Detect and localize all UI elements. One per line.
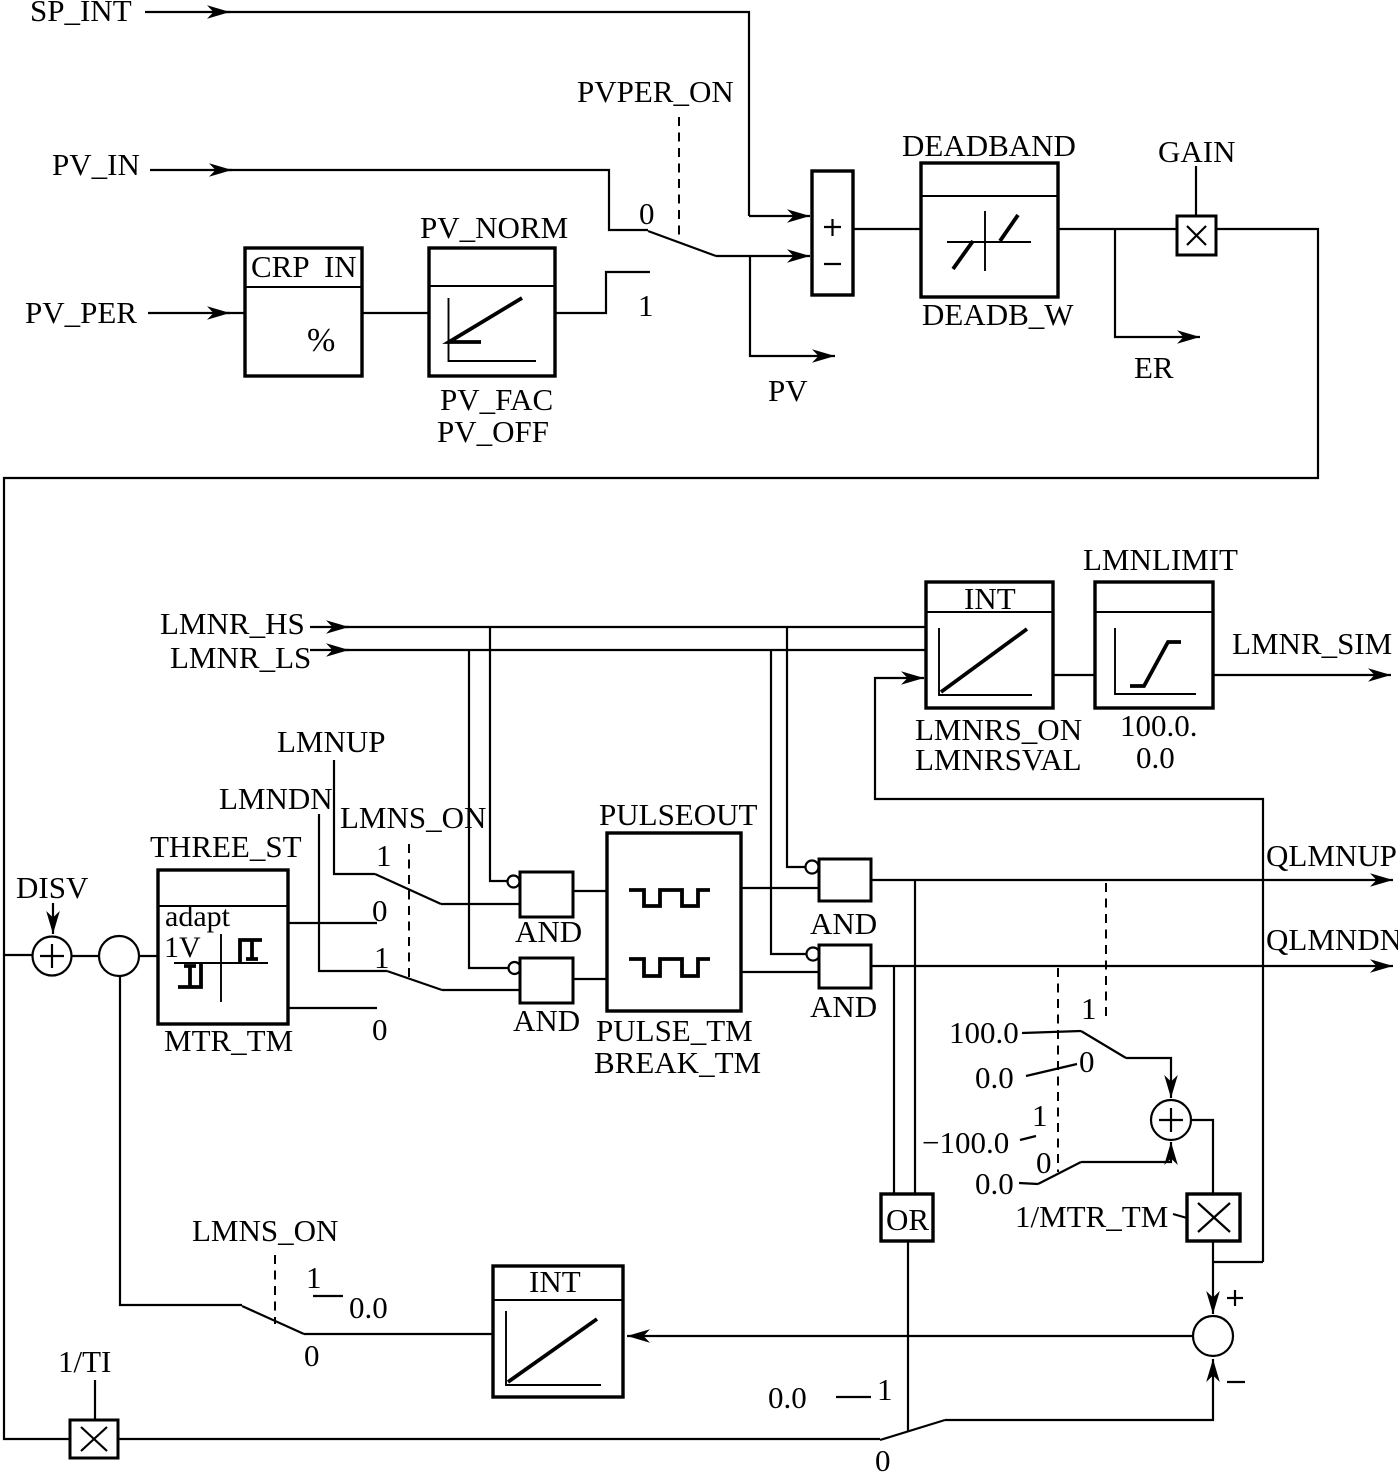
wire LMNR_HS drop to right AND gate	[787, 627, 805, 867]
wire LMNUP drop	[334, 760, 375, 874]
block MTR_TM multiplier box	[1187, 1194, 1240, 1241]
svg-text:LMNS_ON: LMNS_ON	[192, 1213, 338, 1248]
svg-text:PV_OFF: PV_OFF	[437, 414, 549, 449]
wire PV tap branch	[750, 257, 835, 356]
wire ER branch with arrow	[1115, 229, 1200, 337]
wire value switch1 open contact	[1026, 1064, 1077, 1076]
summer bottom circle	[1193, 1316, 1233, 1356]
wire bottom switch arm	[242, 1306, 304, 1334]
svg-text:LMNR_SIM: LMNR_SIM	[1232, 626, 1392, 661]
svg-text:0: 0	[372, 1012, 388, 1047]
block CRP_IN box	[245, 248, 362, 376]
wire value switch2 open contact	[1020, 1136, 1036, 1140]
wire feedback tap junction	[1213, 1261, 1263, 1263]
svg-text:1: 1	[638, 288, 654, 323]
svg-text:1: 1	[376, 838, 392, 873]
wire SP_INT input with arrow	[145, 11, 230, 13]
block TI multiplier box	[70, 1420, 118, 1458]
gate AND lower-right box	[819, 945, 871, 988]
wire DISV input arrow	[52, 903, 54, 934]
wire LMNR_LS drop to right AND gate	[771, 650, 806, 954]
wire bottom switch output to INT	[304, 1333, 493, 1335]
wire feedback branch into DISV summer	[4, 954, 32, 956]
wire THREE_ST upper output	[288, 922, 377, 924]
block summer SP-PV	[812, 171, 853, 295]
wire bottom right contact 1 dash	[836, 1396, 871, 1398]
svg-text:OR: OR	[886, 1202, 929, 1237]
svg-text:1/TI: 1/TI	[58, 1344, 111, 1379]
wire bottom rail into minus input	[945, 1359, 1213, 1420]
svg-text:AND: AND	[513, 1003, 580, 1038]
wire LMNR_LS drop to left AND gate	[469, 650, 508, 968]
wire SP_INT into summer plus input	[749, 215, 810, 217]
block LMNLIMIT box	[1095, 582, 1213, 708]
svg-text:PVPER_ON: PVPER_ON	[577, 74, 734, 109]
svg-text:0.0: 0.0	[349, 1290, 388, 1325]
svg-text:1: 1	[306, 1260, 322, 1295]
wire value switch2 output into summer	[1081, 1142, 1171, 1162]
svg-text:SP_INT: SP_INT	[30, 0, 132, 28]
wire switch2 output to AND2	[442, 989, 520, 991]
svg-text:LMNR_HS: LMNR_HS	[160, 606, 305, 641]
wire LMNR_LS input line	[310, 649, 349, 651]
wire PV_PER input with arrow	[148, 312, 230, 314]
wire DISV summer to branch node	[72, 955, 100, 957]
wire summer to DEADBAND	[853, 228, 921, 230]
wire GAIN output feedback to lower section	[4, 229, 1318, 1439]
svg-text:PV_FAC: PV_FAC	[440, 382, 553, 417]
svg-text:INT: INT	[964, 581, 1016, 616]
svg-text:0: 0	[1079, 1044, 1095, 1079]
gate AND upper-left box	[520, 872, 573, 917]
svg-text:MTR_TM: MTR_TM	[164, 1023, 293, 1058]
svg-text:DISV: DISV	[16, 870, 89, 905]
svg-text:1: 1	[1081, 991, 1097, 1026]
svg-text:PV: PV	[768, 373, 808, 408]
wire dashed control from QLMNUP	[1105, 883, 1107, 1020]
wire value switch1 arm	[1081, 1031, 1126, 1058]
svg-text:0: 0	[875, 1443, 891, 1473]
wire bottom switch contact 1 dash	[313, 1295, 343, 1297]
svg-text:PV_NORM: PV_NORM	[420, 210, 568, 245]
gate AND lower-left box	[520, 958, 573, 1003]
svg-text:AND: AND	[515, 914, 582, 949]
wire OR input from QLMNDN line	[893, 966, 895, 1194]
wire PULSEOUT lower output to right AND	[741, 971, 819, 973]
wire CRP_IN to PV_NORM	[362, 312, 429, 314]
wire bottom rail to switch	[118, 1438, 880, 1440]
wire branch node down to bottom switch	[120, 976, 242, 1305]
wire switch2 arm LMNDN	[387, 971, 442, 990]
node minus label bottom summer	[1227, 1381, 1245, 1383]
svg-text:DEADBAND: DEADBAND	[902, 128, 1076, 163]
wire LMNS_ON dashed control	[408, 844, 410, 977]
wire bottom right switch arm	[880, 1420, 945, 1440]
svg-text:LMNDN: LMNDN	[219, 781, 333, 816]
svg-text:BREAK_TM: BREAK_TM	[594, 1045, 761, 1080]
wire bottom summer output to INT	[627, 1335, 1193, 1337]
svg-text:0.0: 0.0	[768, 1380, 807, 1415]
wire value switch1 output into summer	[1126, 1058, 1171, 1098]
wire PV_NORM output to switch contact 1	[555, 272, 650, 313]
block THREE_ST box	[158, 870, 288, 1024]
block PV_NORM box	[429, 248, 555, 376]
wire dashed control from QLMNDN	[1057, 968, 1059, 1172]
block INT integrator top box	[926, 582, 1053, 708]
wire PVPER_ON dashed control line	[678, 117, 680, 239]
summer value circle	[1151, 1100, 1191, 1140]
svg-text:AND: AND	[810, 989, 877, 1024]
block DEADBAND box	[921, 163, 1058, 297]
svg-text:PV_PER: PV_PER	[25, 295, 137, 330]
wire 1/MTR_TM label leader	[1173, 1214, 1187, 1218]
svg-text:%: %	[307, 322, 335, 359]
svg-text:1: 1	[1032, 1098, 1048, 1133]
svg-text:LMNR_LS: LMNR_LS	[170, 640, 311, 675]
svg-text:0: 0	[639, 196, 655, 231]
svg-text:adapt: adapt	[165, 900, 231, 933]
wire AND2 to PULSEOUT	[573, 978, 607, 980]
wire switch output into summer minus input	[716, 255, 810, 257]
wire DEADBAND to GAIN	[1058, 228, 1177, 230]
wire PV selector switch arm	[648, 231, 716, 256]
svg-text:QLMNUP: QLMNUP	[1266, 838, 1397, 873]
svg-text:0: 0	[1036, 1145, 1052, 1180]
svg-text:0.0: 0.0	[1136, 740, 1175, 775]
svg-text:−100.0: −100.0	[922, 1125, 1009, 1160]
wire OR output down	[907, 1241, 909, 1431]
wire branch node to THREE_ST	[139, 955, 158, 957]
wire value switch2 contact line	[1019, 1183, 1038, 1184]
svg-text:1: 1	[877, 1372, 893, 1407]
svg-text:INT: INT	[529, 1264, 581, 1299]
svg-text:PULSEOUT: PULSEOUT	[599, 797, 758, 832]
svg-text:PV_IN: PV_IN	[52, 147, 140, 182]
svg-text:1/MTR_TM: 1/MTR_TM	[1015, 1199, 1168, 1234]
wire feedback into INT third input	[875, 678, 1263, 1262]
svg-text:100.0: 100.0	[949, 1015, 1019, 1050]
wire AND1 to PULSEOUT	[573, 890, 607, 892]
svg-text:PULSE_TM: PULSE_TM	[596, 1013, 753, 1048]
svg-text:0.0: 0.0	[975, 1060, 1014, 1095]
wire multiplier output to bottom summer	[1212, 1241, 1214, 1314]
svg-text:0: 0	[304, 1338, 320, 1373]
wire value switch2 arm	[1038, 1162, 1081, 1184]
wire QLMNDN output	[871, 965, 1393, 967]
svg-text:LMNS_ON: LMNS_ON	[340, 800, 486, 835]
svg-text:ER: ER	[1134, 350, 1174, 385]
gate AND upper-right box	[819, 859, 871, 901]
svg-text:100.0.: 100.0.	[1120, 708, 1198, 743]
svg-text:LMNUP: LMNUP	[277, 724, 386, 759]
wire THREE_ST lower output	[288, 1007, 377, 1009]
block GAIN multiplier	[1177, 216, 1216, 255]
svg-text:1V: 1V	[164, 931, 201, 964]
svg-text:LMNRSVAL: LMNRSVAL	[915, 742, 1082, 777]
wire PV_IN input with arrow	[150, 169, 232, 171]
wire LMNR_HS drop to left AND gate	[490, 627, 507, 881]
block INT integrator bottom box	[493, 1266, 623, 1397]
wire OR input from QLMNUP line	[914, 880, 916, 1194]
wire 1/TI label leader	[94, 1380, 96, 1420]
wire LMNR_HS input line	[310, 626, 349, 628]
svg-text:AND: AND	[810, 906, 877, 941]
wire value summer to MTR_TM multiplier	[1191, 1120, 1213, 1194]
summer DISV circle	[33, 937, 72, 976]
svg-text:THREE_ST: THREE_ST	[150, 829, 302, 864]
wire QLMNUP output	[871, 879, 1393, 881]
wire switch1 arm LMNUP	[375, 874, 441, 904]
wire INT to LMNLIMIT	[1053, 674, 1095, 676]
wire LMNS_ON dashed control bottom	[274, 1255, 276, 1324]
svg-text:CRP IN: CRP IN	[251, 249, 357, 284]
svg-text:DEADB_W: DEADB_W	[922, 297, 1074, 332]
svg-text:QLMNDN: QLMNDN	[1266, 922, 1398, 957]
wire PULSEOUT upper output to right AND	[741, 887, 819, 889]
block OR box	[881, 1194, 933, 1241]
node plus label bottom summer	[1227, 1297, 1243, 1299]
wire value switch1 contact line	[1022, 1031, 1081, 1033]
wire LMNR_SIM output	[1213, 674, 1391, 676]
svg-text:1: 1	[374, 940, 390, 975]
svg-text:0.0: 0.0	[975, 1166, 1014, 1201]
node branch circle	[99, 936, 139, 976]
svg-text:GAIN: GAIN	[1158, 134, 1236, 169]
wire GAIN label leader	[1195, 166, 1197, 216]
svg-text:LMNLIMIT: LMNLIMIT	[1083, 542, 1238, 577]
wire LMNDN drop	[319, 814, 387, 971]
block PULSEOUT box	[607, 833, 741, 1011]
wire switch1 output to AND1	[441, 903, 520, 905]
